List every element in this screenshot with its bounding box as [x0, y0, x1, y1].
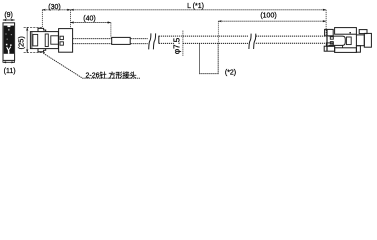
svg-text:(11): (11) [4, 68, 16, 75]
dimension label (25) rotated [16, 36, 25, 50]
cable tube 2 (label *2) [200, 43, 219, 73]
dimension label (40) [83, 16, 95, 23]
right connector snout [356, 35, 364, 46]
left connector body [30, 32, 58, 49]
right connector mid post [346, 37, 351, 45]
left connector front recess [33, 34, 38, 46]
boot screw lower [60, 42, 63, 45]
svg-text:L (*1): L (*1) [187, 3, 204, 10]
extension line boot end [70, 10, 72, 28]
right connector tip [364, 33, 371, 47]
svg-text:(100): (100) [260, 13, 276, 20]
svg-text:φ7.5: φ7.5 [173, 37, 182, 54]
pin highlights [6, 26, 12, 54]
left connector front face inner line [31, 32, 33, 49]
cable segment 1 (thin) [73, 39, 148, 44]
extension line tube1 [110, 23, 112, 38]
right backshell screw lower [330, 42, 333, 44]
connector end view outer shell [3, 23, 15, 61]
right connector lower step [356, 46, 360, 53]
cable jacket tube segment 2 [159, 36, 249, 43]
extension line right connector face [325, 10, 327, 35]
dimension line (11) [3, 60, 15, 63]
note text 2-26 pin square connector [86, 70, 137, 79]
dimension line (40) [71, 21, 111, 23]
right connector backshell [328, 36, 345, 45]
svg-text:(9): (9) [4, 12, 13, 19]
flange pin mark [349, 32, 351, 33]
leader line to connector note [43, 53, 140, 78]
dimension label (11) [4, 68, 16, 75]
dimension label (100) [260, 13, 276, 20]
extension line left face [41, 10, 43, 28]
cable jacket tube left edge [158, 36, 160, 44]
text gap box [175, 37, 182, 53]
right connector upper flange [335, 28, 357, 35]
cable break 2 [249, 34, 251, 49]
right connector collar [326, 29, 328, 51]
svg-text:2-26针 方形接头: 2-26针 方形接头 [86, 70, 137, 79]
right connector lower clamp small [326, 43, 333, 46]
dimension line (9) [3, 19, 15, 21]
cable tube 1 [112, 37, 131, 44]
extension line top (25) [24, 26, 43, 28]
dimension label (30) [48, 4, 60, 11]
cable diameter label [173, 37, 182, 54]
left connector inner post [45, 34, 48, 47]
left connector boot [59, 29, 73, 53]
svg-text:(25): (25) [16, 36, 25, 50]
right connector latch [359, 30, 367, 34]
extension line bottom (25) [24, 52, 46, 54]
body lower mark [342, 45, 344, 48]
right connector upper clamp [325, 29, 334, 35]
right connector lower clamp [324, 46, 335, 51]
dimension line L [71, 9, 327, 11]
extension line tube2 [217, 21, 219, 43]
dimension line (30) [42, 9, 70, 11]
svg-text:(*2): (*2) [225, 70, 236, 77]
cable jacket tube segment 3 [256, 36, 327, 43]
dimension label (9) [4, 12, 13, 19]
vertical dimension (25) line [26, 27, 28, 52]
cable break 1 [149, 33, 151, 49]
left connector bottom tab [38, 49, 46, 52]
dimension label L (*1) [187, 3, 204, 10]
right backshell screw upper [330, 37, 333, 39]
dimension line (100) [218, 20, 326, 22]
boot screw upper [60, 36, 63, 39]
svg-text:(40): (40) [83, 16, 95, 23]
cable diameter line [182, 31, 184, 57]
left connector top tab [38, 28, 46, 31]
label (*2) [225, 70, 236, 77]
right connector lower flange [335, 48, 357, 53]
left connector inner block [51, 36, 59, 44]
connector end view pin face (dark) [4, 26, 14, 54]
